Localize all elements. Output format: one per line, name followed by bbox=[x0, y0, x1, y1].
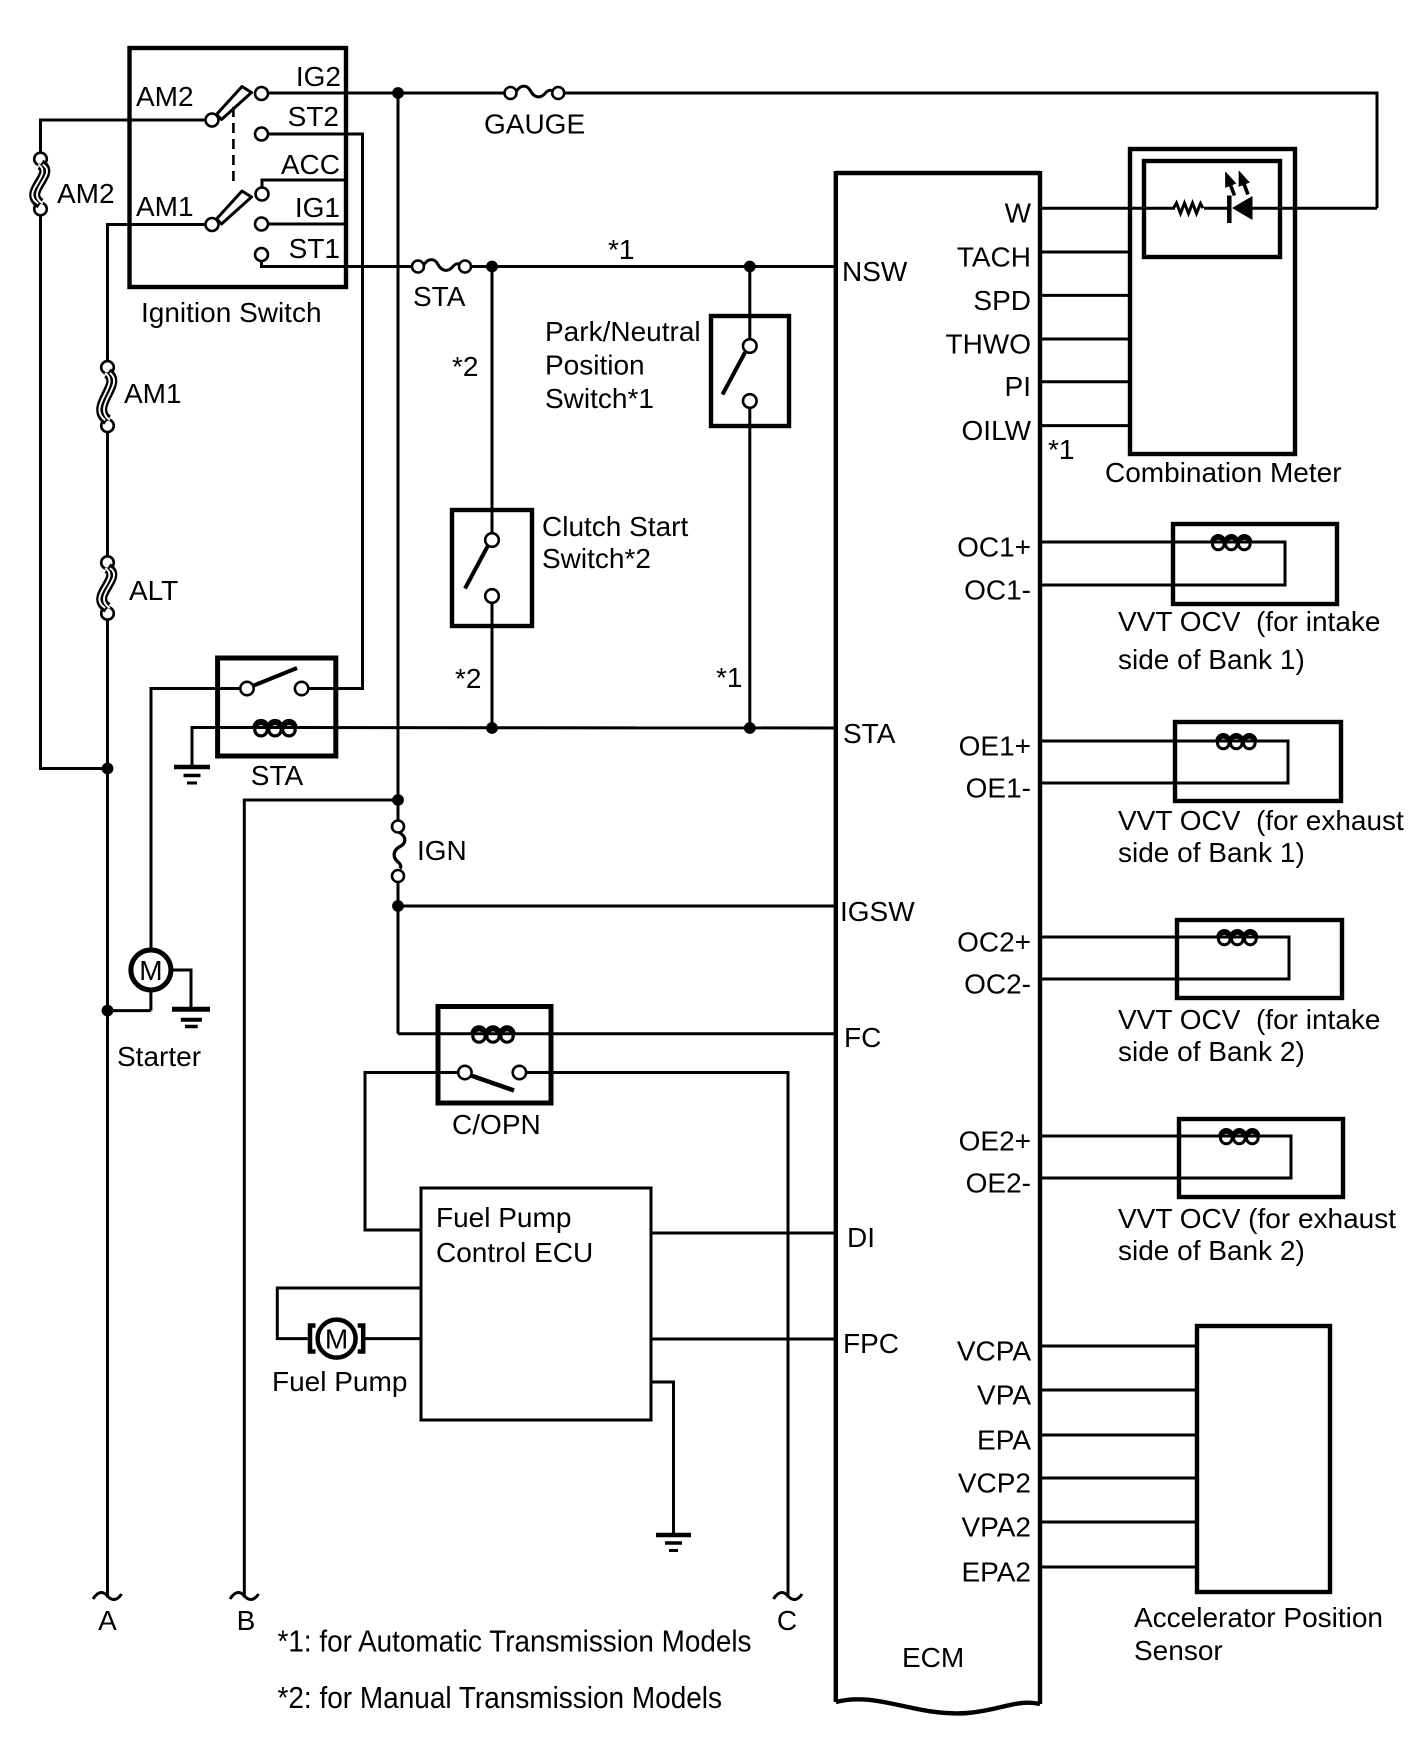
wire EPA2 bbox=[1040, 1566, 1197, 1569]
contact IG1 bbox=[255, 218, 268, 231]
svg-text:OC1+: OC1+ bbox=[957, 532, 1031, 563]
STA relay left contact bbox=[240, 682, 253, 695]
wire AM2 link down to junction bbox=[41, 215, 108, 769]
svg-text:*2: for Manual Transmission Mo: *2: for Manual Transmission Models bbox=[278, 1680, 723, 1715]
LED triangle bbox=[1232, 196, 1253, 220]
svg-text:Ignition Switch: Ignition Switch bbox=[141, 297, 322, 328]
wire fuel pump loop to ECU bbox=[277, 1288, 421, 1339]
coil VVT OCV 4 bbox=[1220, 1130, 1259, 1144]
svg-text:OILW: OILW bbox=[962, 415, 1032, 446]
clutch switch top contact bbox=[485, 533, 499, 547]
wire STA relay switch to starter bbox=[151, 689, 240, 951]
svg-text:VVT OCV (for intake: VVT OCV (for intake bbox=[1118, 606, 1380, 637]
svg-text:ST2: ST2 bbox=[288, 101, 339, 132]
svg-text:*1: *1 bbox=[608, 234, 634, 265]
node AM2/AM1 junction bbox=[102, 763, 114, 775]
svg-text:PI: PI bbox=[1005, 371, 1031, 402]
svg-text:M: M bbox=[325, 1324, 348, 1355]
resistor (indicator) bbox=[1174, 203, 1204, 213]
wire OC1 inner loop bbox=[1040, 542, 1285, 585]
wire OE1+ bbox=[1040, 740, 1218, 743]
wire *1 branch down to P/N switch bbox=[748, 267, 751, 340]
svg-text:*1: for Automatic Transmission: *1: for Automatic Transmission Models bbox=[278, 1624, 752, 1659]
node IG2/GAUGE junction bbox=[392, 87, 404, 99]
svg-text:Park/Neutral: Park/Neutral bbox=[545, 316, 701, 347]
contact AM1 bbox=[206, 218, 219, 231]
wire junction to starter bbox=[108, 1009, 151, 1012]
svg-text:AM1: AM1 bbox=[124, 378, 182, 409]
svg-text:side of Bank 2): side of Bank 2) bbox=[1118, 1235, 1305, 1266]
park/neutral position switch box bbox=[711, 316, 789, 426]
coil VVT OCV 1 bbox=[1212, 536, 1251, 550]
svg-text:STA: STA bbox=[843, 718, 896, 749]
svg-text:*2: *2 bbox=[455, 663, 481, 694]
combination meter indicator inner box bbox=[1144, 161, 1280, 257]
ECM box bbox=[836, 171, 1040, 1713]
wire STA relay coil to ECM STA pin bbox=[295, 726, 835, 730]
wire EPA bbox=[1040, 1434, 1197, 1437]
svg-text:Switch*1: Switch*1 bbox=[545, 383, 654, 414]
fusible link AM2 bbox=[32, 153, 47, 216]
switch blade AM1-ACC bbox=[217, 191, 252, 224]
switch blade AM2-IG2 bbox=[217, 87, 252, 120]
svg-text:IGN: IGN bbox=[417, 835, 467, 866]
wire OC2+ bbox=[1040, 936, 1219, 939]
svg-text:Combination Meter: Combination Meter bbox=[1105, 457, 1342, 488]
svg-text:IG1: IG1 bbox=[295, 192, 340, 223]
svg-text:VCPA: VCPA bbox=[957, 1336, 1031, 1367]
svg-text:side of Bank 1): side of Bank 1) bbox=[1118, 837, 1305, 868]
wire THWO bbox=[1040, 338, 1130, 341]
wire FC: IGN line to C-OPN coil to ECM FC pin bbox=[398, 1032, 836, 1035]
wire FPC: ECU to ECM bbox=[651, 1338, 836, 1341]
svg-text:OC2+: OC2+ bbox=[957, 927, 1031, 958]
wire clutch switch to STA wire bbox=[491, 603, 494, 728]
svg-text:Control ECU: Control ECU bbox=[436, 1237, 593, 1268]
coil VVT OCV 2 bbox=[1217, 735, 1256, 749]
wire AM1 link to ALT link bbox=[106, 432, 109, 557]
svg-text:VCP2: VCP2 bbox=[958, 1468, 1031, 1499]
wire IG1 stub bbox=[268, 223, 344, 226]
wire starter motor to ground bbox=[171, 970, 191, 1007]
svg-text:THWO: THWO bbox=[945, 329, 1031, 360]
svg-text:OC1-: OC1- bbox=[964, 575, 1031, 606]
svg-text:DI: DI bbox=[847, 1222, 875, 1253]
svg-text:C: C bbox=[777, 1605, 797, 1636]
LED cathode bar bbox=[1227, 196, 1232, 224]
LED emission arrow 1 bbox=[1220, 169, 1241, 198]
node clutch switch branch bbox=[486, 261, 498, 273]
starter motor M bbox=[131, 950, 171, 990]
fuse IGN bbox=[392, 821, 405, 883]
fuel pump control ECU box bbox=[421, 1188, 651, 1420]
wire VCPA bbox=[1040, 1345, 1197, 1348]
svg-text:OE1-: OE1- bbox=[966, 773, 1031, 804]
wire DI: ECU to ECM bbox=[651, 1232, 836, 1235]
svg-text:FPC: FPC bbox=[843, 1328, 899, 1359]
wire *2 branch down to clutch switch bbox=[491, 267, 494, 534]
node P-N/STA junction bbox=[744, 722, 756, 734]
STA relay box bbox=[218, 658, 336, 756]
connector A bbox=[93, 1593, 122, 1636]
svg-text:*1: *1 bbox=[1048, 434, 1074, 465]
clutch start switch box bbox=[452, 510, 532, 626]
P/N switch bottom contact bbox=[743, 394, 757, 408]
fuse STA bbox=[412, 260, 471, 273]
wire VPA bbox=[1040, 1389, 1197, 1392]
svg-text:Switch*2: Switch*2 bbox=[542, 543, 651, 574]
wire PI bbox=[1040, 380, 1130, 383]
C/OPN blade bbox=[471, 1076, 514, 1091]
VVT OCV box 2 (exhaust bank 1) bbox=[1175, 722, 1341, 801]
STA relay blade bbox=[254, 668, 297, 686]
svg-text:B: B bbox=[237, 1605, 256, 1636]
wire OE2+ bbox=[1040, 1135, 1221, 1138]
fuel pump motor M bbox=[318, 1320, 356, 1358]
svg-text:ST1: ST1 bbox=[289, 233, 340, 264]
VVT OCV box 1 (intake bank 1) bbox=[1173, 524, 1337, 604]
wire IG2 to GAUGE fuse bbox=[268, 92, 504, 95]
svg-text:SPD: SPD bbox=[973, 285, 1031, 316]
wire OC2 inner loop bbox=[1040, 937, 1289, 979]
svg-text:STA: STA bbox=[251, 760, 304, 791]
svg-text:VPA2: VPA2 bbox=[961, 1512, 1031, 1543]
contact IG2 bbox=[255, 87, 268, 100]
P/N switch top contact bbox=[743, 339, 757, 353]
svg-text:OE2-: OE2- bbox=[966, 1168, 1031, 1199]
wire AM1 contact to left drop bbox=[108, 225, 206, 362]
svg-text:A: A bbox=[98, 1605, 117, 1636]
wire ST1 to STA fuse bbox=[262, 261, 413, 267]
wire OC1+ bbox=[1040, 541, 1213, 544]
ground (STA relay) bbox=[174, 767, 210, 783]
P/N switch blade bbox=[723, 353, 746, 395]
wire C/OPN switch to connector C bbox=[526, 1073, 788, 1598]
svg-text:side of Bank 1): side of Bank 1) bbox=[1118, 644, 1305, 675]
node IGSW junction bbox=[392, 900, 404, 912]
fuse GAUGE bbox=[505, 86, 565, 99]
svg-text:Fuel Pump: Fuel Pump bbox=[272, 1366, 407, 1397]
wire LED to meter right side bbox=[1253, 207, 1378, 210]
fuel pump left bracket bbox=[310, 1326, 316, 1352]
STA relay coil bbox=[248, 721, 302, 736]
C/OPN relay box bbox=[438, 1007, 551, 1104]
svg-text:W: W bbox=[1005, 198, 1032, 229]
svg-text:EPA: EPA bbox=[977, 1425, 1031, 1456]
svg-text:IGSW: IGSW bbox=[840, 896, 915, 927]
wire IGSW to ECM bbox=[398, 905, 836, 908]
STA relay right contact bbox=[295, 682, 308, 695]
svg-text:Starter: Starter bbox=[117, 1041, 201, 1072]
fuel pump right bracket bbox=[358, 1326, 364, 1352]
C/OPN relay coil bbox=[472, 1027, 514, 1042]
svg-text:ECM: ECM bbox=[902, 1642, 964, 1673]
wire starter motor bottom lead bbox=[149, 990, 152, 1011]
combination meter outer box bbox=[1130, 149, 1295, 454]
svg-text:AM1: AM1 bbox=[136, 191, 194, 222]
svg-text:AM2: AM2 bbox=[136, 81, 194, 112]
svg-text:EPA2: EPA2 bbox=[961, 1557, 1031, 1588]
contact ST2 bbox=[255, 128, 268, 141]
ground (starter) bbox=[172, 1009, 210, 1026]
mechanical link dashed line bbox=[232, 107, 235, 186]
clutch switch blade bbox=[465, 547, 488, 589]
wire AM2 contact to left drop bbox=[41, 120, 206, 153]
svg-text:*1: *1 bbox=[716, 662, 742, 693]
VVT OCV box 3 (intake bank 2) bbox=[1177, 920, 1342, 998]
svg-text:Accelerator Position: Accelerator Position bbox=[1134, 1602, 1383, 1633]
svg-text:VVT OCV (for exhaust: VVT OCV (for exhaust bbox=[1118, 805, 1404, 836]
VVT OCV box 4 (exhaust bank 2) bbox=[1179, 1119, 1343, 1197]
svg-text:AM2: AM2 bbox=[57, 178, 115, 209]
svg-text:Fuel Pump: Fuel Pump bbox=[436, 1202, 571, 1233]
connector B bbox=[230, 1593, 259, 1636]
accelerator position sensor box bbox=[1197, 1326, 1330, 1592]
wire C/OPN switch to fuel pump ECU bbox=[365, 1073, 458, 1231]
svg-text:M: M bbox=[139, 955, 162, 986]
contact AM2 bbox=[206, 114, 219, 127]
wire GAUGE fuse to combination meter (top right) bbox=[564, 93, 1377, 208]
wire ALT link down to connector A bbox=[106, 619, 109, 1597]
coil VVT OCV 3 bbox=[1218, 931, 1257, 945]
clutch switch bottom contact bbox=[485, 589, 499, 603]
svg-text:side of Bank 2): side of Bank 2) bbox=[1118, 1036, 1305, 1067]
contact ST1 bbox=[255, 248, 268, 261]
svg-text:OC2-: OC2- bbox=[964, 969, 1031, 1000]
node starter ground junction bbox=[102, 1005, 114, 1017]
svg-text:VPA: VPA bbox=[977, 1380, 1031, 1411]
node clutch/STA junction bbox=[486, 722, 498, 734]
svg-text:Sensor: Sensor bbox=[1134, 1635, 1223, 1666]
svg-text:FC: FC bbox=[844, 1022, 881, 1053]
node B branch junction bbox=[392, 794, 404, 806]
wire resistor to LED bbox=[1204, 207, 1227, 210]
wire fuel pump right to ECU bbox=[365, 1337, 421, 1340]
wire OE1 inner loop bbox=[1040, 741, 1288, 783]
wire B branch stub bbox=[244, 800, 398, 1598]
wire OILW bbox=[1040, 424, 1130, 427]
svg-text:ACC: ACC bbox=[281, 149, 340, 180]
wire VPA2 bbox=[1040, 1521, 1197, 1524]
fusible link AM1 bbox=[99, 361, 114, 432]
wire P/N switch to STA wire bbox=[748, 408, 751, 728]
wire TACH bbox=[1040, 251, 1130, 254]
node park/neutral branch bbox=[744, 261, 756, 273]
ignition switch box bbox=[130, 48, 347, 287]
wire W pin to resistor bbox=[1040, 207, 1175, 210]
wire STA fuse to ECM NSW pin bbox=[471, 265, 836, 268]
svg-text:C/OPN: C/OPN bbox=[452, 1109, 541, 1140]
wire VCP2 bbox=[1040, 1477, 1197, 1480]
connector C bbox=[774, 1593, 803, 1636]
ground (fuel pump ECU) bbox=[656, 1535, 691, 1551]
svg-text:Position: Position bbox=[545, 350, 645, 381]
svg-text:IG2: IG2 bbox=[296, 61, 341, 92]
wire STA relay coil left to ground bbox=[192, 728, 254, 766]
wire IGN fuse to IGSW junction bbox=[397, 882, 400, 1034]
fusible link ALT bbox=[99, 556, 114, 619]
svg-text:VVT OCV (for intake: VVT OCV (for intake bbox=[1118, 1004, 1380, 1035]
svg-text:ALT: ALT bbox=[129, 575, 178, 606]
wire ECU to ground bbox=[651, 1382, 674, 1533]
svg-text:OE2+: OE2+ bbox=[959, 1126, 1031, 1157]
svg-text:VVT OCV (for exhaust: VVT OCV (for exhaust bbox=[1118, 1203, 1396, 1234]
svg-text:GAUGE: GAUGE bbox=[484, 109, 585, 140]
wire OE2 inner loop bbox=[1040, 1136, 1291, 1178]
svg-text:TACH: TACH bbox=[957, 242, 1031, 273]
C/OPN right contact bbox=[513, 1066, 526, 1079]
svg-text:NSW: NSW bbox=[842, 256, 908, 287]
svg-text:Clutch Start: Clutch Start bbox=[542, 511, 688, 542]
svg-text:OE1+: OE1+ bbox=[959, 731, 1031, 762]
LED emission arrow 2 bbox=[1233, 168, 1254, 197]
wire IG2 feed down left of ECM bbox=[397, 93, 400, 821]
wire ST2 to STA relay bbox=[268, 134, 363, 689]
svg-text:STA: STA bbox=[413, 281, 466, 312]
wire SPD bbox=[1040, 294, 1130, 297]
C/OPN left contact bbox=[458, 1066, 471, 1079]
contact ACC bbox=[256, 188, 269, 201]
svg-text:*2: *2 bbox=[452, 351, 478, 382]
wire ACC stub bbox=[262, 180, 344, 188]
